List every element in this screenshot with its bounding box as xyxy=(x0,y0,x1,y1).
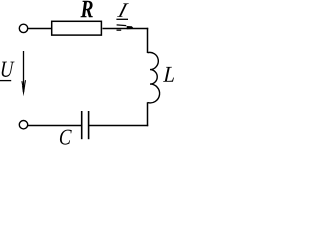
inductor label L xyxy=(163,67,174,82)
capacitor right plate xyxy=(88,111,90,139)
voltage arrow head barb left xyxy=(22,81,23,87)
terminal circle top-left xyxy=(19,24,27,32)
capacitor label C xyxy=(60,130,72,145)
underline of U xyxy=(0,80,11,82)
wire resistor to top-right corner xyxy=(103,28,149,30)
wire right side vertical top xyxy=(147,28,149,53)
terminal circle bottom-left xyxy=(19,121,27,129)
resistor label R xyxy=(81,1,93,17)
voltage arrow head barb right xyxy=(24,80,25,87)
voltage label U xyxy=(2,62,15,77)
voltage arrow head xyxy=(22,86,25,97)
resistor R box xyxy=(52,21,102,35)
wire top-left terminal to resistor xyxy=(28,28,52,30)
wire bottom-right segment xyxy=(89,125,148,127)
inductor L coil xyxy=(148,52,160,102)
current label I xyxy=(117,3,129,17)
wire right side vertical bottom xyxy=(147,102,149,126)
current arrow head on wire xyxy=(117,25,134,30)
capacitor left plate xyxy=(81,111,83,139)
wire capacitor to bottom-left terminal xyxy=(28,125,82,127)
underline of I xyxy=(116,18,128,20)
voltage arrow shaft xyxy=(23,51,25,92)
